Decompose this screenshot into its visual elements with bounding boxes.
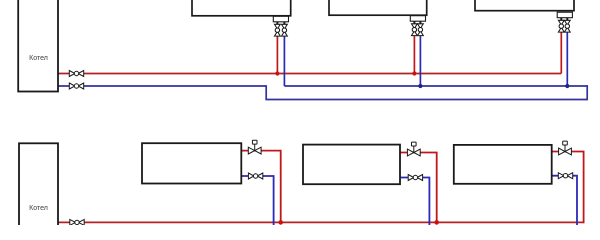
junction dot: B2 supply tee: [434, 220, 439, 225]
return pipe lower run: [265, 99, 587, 101]
radiator B1 (bottom): [142, 143, 241, 183]
radiator B3 supply pipe (red): [552, 152, 584, 224]
radiator B2 supply pipe (red): [400, 153, 437, 223]
return pipe boiler run (top, blue): [58, 85, 266, 87]
radiator R3 supply riser (red): [560, 30, 562, 73]
radiator B2 return pipe (blue): [400, 178, 429, 227]
B1 control valve (supply, with stem): [248, 140, 261, 154]
radiator R2 supply riser (red): [413, 35, 415, 74]
junction dot: R1 supply tee: [275, 71, 279, 75]
boiler K2 (bottom): [19, 143, 58, 227]
R1 supply valve (vertical): [275, 24, 281, 36]
radiator B2 (bottom): [303, 145, 400, 185]
radiator R1 supply riser (red): [276, 35, 278, 73]
return collector run: [284, 85, 588, 87]
B3 control valve (supply, with stem): [559, 141, 572, 155]
radiator B3 return pipe (blue): [552, 176, 577, 226]
B2 return valve: [408, 175, 422, 181]
R3 bottom connection unit: [557, 12, 572, 21]
R2 bottom connection unit: [410, 16, 425, 25]
supply pipe main (top, red): [58, 73, 561, 75]
radiator R2 (top): [329, 0, 427, 15]
radiator B1 return pipe (blue): [241, 176, 273, 226]
return pipe right riser: [586, 85, 588, 100]
radiator R3 (top): [475, 0, 574, 11]
radiator B3 (bottom): [454, 145, 552, 184]
junction dot: R2 supply tee: [412, 71, 416, 75]
supply pipe main (bottom, red): [58, 221, 584, 223]
valve V1 on boiler supply: [69, 71, 83, 77]
return pipe drop at x266: [265, 85, 267, 99]
R1 bottom connection unit: [273, 16, 288, 24]
R2 return valve (vertical): [418, 24, 424, 36]
R2 supply valve (vertical): [412, 24, 418, 36]
radiator R2 return drop (blue): [419, 35, 421, 86]
radiator R3 return drop (blue): [566, 30, 568, 86]
B3 return valve: [558, 173, 572, 179]
svg-text:Котел: Котел: [29, 55, 48, 62]
R1 return valve (vertical): [282, 24, 288, 36]
boiler K1 (top): [18, 0, 58, 92]
B1 return valve: [248, 173, 262, 179]
valve V3 on bottom boiler supply: [70, 219, 84, 225]
valve V2 on boiler return: [69, 83, 83, 89]
radiator B1 supply pipe (red): [241, 151, 280, 223]
B2 control valve (supply, with stem): [407, 142, 420, 156]
svg-text:Котел: Котел: [29, 205, 48, 212]
R3 return valve (vertical): [564, 20, 570, 32]
radiator R1 (top): [192, 0, 291, 16]
junction dot: B1 supply tee: [278, 220, 283, 225]
R3 supply valve (vertical): [558, 20, 564, 32]
radiator R1 return drop (blue): [283, 35, 285, 86]
junction dot: R2 return tee: [418, 84, 422, 88]
junction dot: R3 return tee: [565, 84, 569, 88]
